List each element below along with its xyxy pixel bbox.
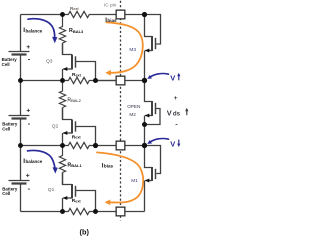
Rext label (second row) xyxy=(72,72,82,78)
resistor Rext (second row) xyxy=(63,77,117,83)
transistor M3 xyxy=(145,15,156,81)
node M2 gate-source tie xyxy=(142,122,147,127)
IC pin square (third row) xyxy=(116,141,125,150)
wire rail segment xyxy=(20,146,22,181)
node gate row2 xyxy=(93,78,98,83)
svg-text:M3: M3 xyxy=(129,47,136,53)
IC boundary dashed line xyxy=(120,1,122,221)
svg-text:M1: M1 xyxy=(131,178,138,184)
svg-text:ds: ds xyxy=(173,110,181,117)
node gate bottom xyxy=(93,209,98,214)
battery cell 3 label xyxy=(2,57,18,67)
svg-text:Cell: Cell xyxy=(2,127,10,132)
node V-down xyxy=(142,143,147,148)
node rail row3 xyxy=(18,143,23,148)
IC pin square (second row) xyxy=(116,76,125,85)
Ibias current arrow (bottom section, orange arc) xyxy=(97,152,143,205)
node col row2 xyxy=(60,78,65,83)
svg-text:ext: ext xyxy=(75,199,81,203)
svg-text:+: + xyxy=(26,44,30,51)
battery cell 2 label xyxy=(2,122,18,132)
wire row2 right of resistor xyxy=(96,80,117,82)
wire M2 gate tied to source xyxy=(145,109,161,125)
transistor Q1 xyxy=(63,173,76,212)
svg-text:ext: ext xyxy=(76,73,82,77)
battery cell 1 label xyxy=(2,186,18,196)
Vds plus sign xyxy=(174,95,178,102)
transistor M2 xyxy=(145,81,156,125)
svg-text:Q2: Q2 xyxy=(52,124,59,130)
svg-text:IC pin: IC pin xyxy=(104,2,117,7)
svg-text:Q3: Q3 xyxy=(46,58,53,64)
Ibias label (bottom) xyxy=(102,162,114,169)
svg-text:RBAL2: RBAL2 xyxy=(67,97,81,103)
resistor RBAL3 xyxy=(59,15,65,44)
Ibalance arrow (middle, blue) xyxy=(28,150,58,173)
wire top row right of pin xyxy=(125,14,145,16)
node top Rext/RBAL3 junction xyxy=(60,12,65,17)
wire M2 source to V-down node xyxy=(144,125,146,146)
Q3 label xyxy=(46,58,53,64)
svg-text:Cell: Cell xyxy=(2,62,10,67)
wire M1 gate loop xyxy=(145,146,161,174)
svg-text:OPEN: OPEN xyxy=(127,104,140,109)
battery cell 1 (bottom) xyxy=(9,172,31,192)
wire rail segment xyxy=(20,81,22,116)
resistor RBAL2 xyxy=(59,81,65,108)
svg-text:+: + xyxy=(174,95,178,102)
svg-text:Cell: Cell xyxy=(2,191,10,196)
wire row2 pin to node xyxy=(125,80,145,82)
Ibias current arrow (top section, orange arc) xyxy=(105,22,143,75)
svg-text:M2: M2 xyxy=(129,112,136,117)
M3 label xyxy=(129,47,136,53)
transistor Q3 xyxy=(63,43,76,81)
resistor Rext (top row) xyxy=(63,11,117,17)
Ibias label (top) xyxy=(105,17,117,24)
IC pin square (top row) xyxy=(116,10,125,19)
V-up label xyxy=(170,73,180,83)
wire RBAL2 to Q2 xyxy=(62,108,64,120)
svg-text:balance: balance xyxy=(26,28,43,33)
V-down arrow (blue) xyxy=(147,139,168,144)
svg-text:V: V xyxy=(167,108,172,117)
V-up arrow (blue) xyxy=(147,74,168,79)
Q2 label xyxy=(52,124,59,130)
OPEN M2 label xyxy=(127,104,140,117)
wire Q2 gate loop xyxy=(76,127,96,146)
wire RBAL1 to Q1 xyxy=(62,173,64,185)
node gate row3 xyxy=(93,143,98,148)
svg-text:ext: ext xyxy=(75,136,81,140)
Rext label (top row) xyxy=(70,6,79,11)
Ibalance label (middle) xyxy=(23,158,42,165)
V-down label xyxy=(170,139,180,148)
wire rail segment xyxy=(20,55,22,81)
IC pin label xyxy=(104,2,117,7)
svg-text:ext: ext xyxy=(73,7,79,11)
transistor Q2 xyxy=(63,108,76,146)
Vds minus sign xyxy=(175,120,178,129)
svg-text:RBAL3: RBAL3 xyxy=(69,28,84,34)
node rail row2 xyxy=(18,78,23,83)
RBAL2 label xyxy=(67,97,81,103)
IC pin square (bottom row) xyxy=(116,207,125,216)
node col row3 xyxy=(60,143,65,148)
Ibalance arrow (top, blue) xyxy=(28,19,57,43)
svg-text:+: + xyxy=(26,172,30,179)
wire rail segment xyxy=(20,119,22,146)
M1 label xyxy=(131,178,138,184)
wire row3 left xyxy=(21,145,63,147)
caption (b) xyxy=(80,228,90,237)
battery cell 3 (top) xyxy=(9,44,31,64)
svg-text:(b): (b) xyxy=(80,228,90,237)
svg-text:bias: bias xyxy=(107,18,117,23)
Q1 label xyxy=(48,187,55,193)
wire left rail top segment xyxy=(20,15,22,52)
transistor M1 xyxy=(145,146,156,212)
wire RBAL3 to Q3 xyxy=(62,43,64,55)
Rext label (bottom row) xyxy=(72,198,82,204)
svg-text:bias: bias xyxy=(104,164,114,169)
wire top row left xyxy=(21,14,63,16)
resistor Rext (bottom row) xyxy=(63,208,117,214)
wire bottom row pin to M1 xyxy=(125,211,145,213)
wire Q1 gate loop xyxy=(76,191,96,212)
battery cell 2 (middle) xyxy=(9,108,31,128)
node V-up xyxy=(142,78,147,83)
wire Q3 gate loop xyxy=(76,62,96,81)
wire rail bottom segment xyxy=(20,184,22,212)
resistor Rext (third row) xyxy=(63,142,117,148)
RBAL1 label xyxy=(67,162,82,168)
Vds label xyxy=(167,108,189,118)
svg-text:Q1: Q1 xyxy=(48,187,55,193)
RBAL3 label xyxy=(69,28,84,34)
wire row3 pin to node xyxy=(125,145,145,147)
Ibalance label (top) xyxy=(23,27,42,34)
wire row2 left xyxy=(21,80,63,82)
resistor RBAL1 xyxy=(59,146,65,173)
Rext label (third row) xyxy=(72,134,82,140)
node top IC net xyxy=(142,12,147,17)
wire M3 gate loop xyxy=(145,15,161,45)
node col bottom xyxy=(60,209,65,214)
svg-text:balance: balance xyxy=(26,159,43,164)
wire bottom row left xyxy=(21,211,63,213)
svg-text:+: + xyxy=(26,108,30,115)
svg-text:RBAL1: RBAL1 xyxy=(67,162,82,168)
